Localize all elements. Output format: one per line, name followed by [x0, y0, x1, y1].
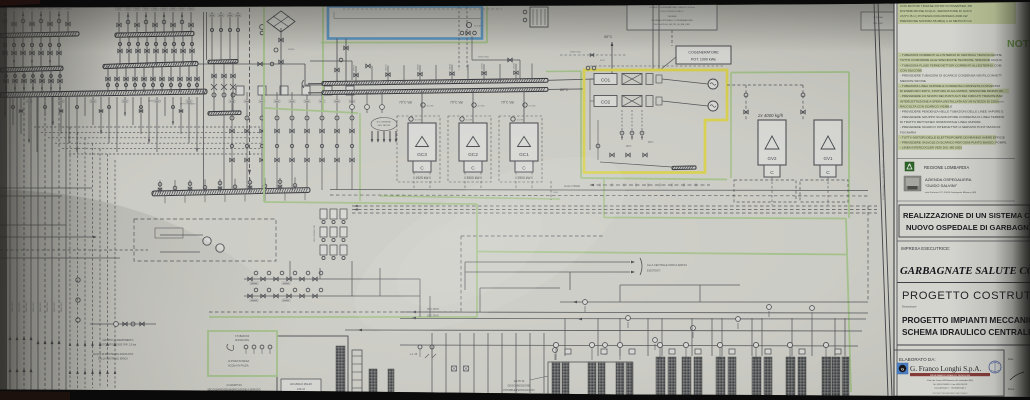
stamp	[989, 361, 1001, 373]
title block panel	[894, 1, 1030, 398]
valve train rows	[244, 278, 420, 280]
dashed verticals descending to bottom	[69, 127, 71, 388]
drops below collettore M5	[4, 97, 6, 116]
tank outline around disconnettori left group	[548, 362, 632, 396]
svg-text:MEDIATE SIFONE: MEDIATE SIFONE	[900, 79, 926, 83]
green boundary top-left loop	[263, 3, 265, 202]
boiler group GC2 dashed enclosure	[448, 116, 491, 182]
svg-text:RACCOLTA CON SCARICO VISIBILE: RACCOLTA CON SCARICO VISIBILE	[900, 105, 952, 109]
filter/separator diamond	[267, 11, 295, 32]
collettore upper bar	[322, 78, 548, 85]
CO1 unit	[594, 74, 617, 85]
steam generator GV1	[814, 120, 842, 165]
manifold M4	[103, 61, 198, 68]
boiler GC2	[459, 123, 487, 161]
risers above manifold M2	[118, 12, 120, 33]
collettore lower bar	[322, 87, 548, 94]
cogeneratore label box	[676, 46, 731, 64]
collettore left stub	[308, 83, 322, 85]
CO2 unit	[594, 96, 617, 107]
green riser right	[846, 218, 851, 392]
note box locale cogeneratore	[627, 3, 717, 30]
dashed panel box	[134, 219, 276, 261]
boiler GC1	[510, 123, 538, 161]
svg-text:ELABORATO DA:: ELABORATO DA:	[899, 357, 936, 362]
unit boxes row	[236, 86, 244, 95]
pumps on cogen feed lines	[351, 92, 353, 113]
manifold M3	[0, 66, 63, 72]
feed lines from top to cogen	[652, 2, 654, 70]
pump lines GC3	[421, 91, 423, 123]
valve row above M6	[159, 180, 161, 193]
step connectors	[619, 285, 621, 302]
top black border bar	[0, 0, 1030, 8]
green pozzi box	[208, 331, 277, 376]
boiler GC3	[408, 123, 436, 161]
dashed companion of green loop	[209, 311, 461, 313]
expansion vessels	[320, 209, 327, 219]
manifold M2	[115, 31, 194, 37]
extra bottom verticals	[431, 333, 433, 393]
green boundary around blue box	[323, 4, 487, 5]
drops M2 to M4	[119, 36, 121, 65]
coil exchanger right of blue box	[530, 7, 548, 27]
left pipe bundle	[9, 97, 11, 392]
yellow box lower valves	[621, 110, 623, 140]
svg-text:Descrizione: Descrizione	[902, 305, 917, 309]
M4 to collettore link	[198, 63, 305, 65]
yellow highlighted cogeneration box	[584, 70, 727, 173]
long control line bundle	[352, 205, 877, 207]
alla centrale idrica	[465, 261, 630, 263]
cogen wires	[662, 79, 708, 84]
svg-text:FOGNARIA: FOGNARIA	[900, 130, 917, 134]
95C pipe	[548, 79, 612, 81]
project title box	[899, 205, 1030, 237]
bottom-left horizontal runs	[0, 236, 96, 238]
feeders to bottom units	[564, 318, 566, 356]
risers above manifold M1	[4, 11, 6, 33]
mini manifold cogen	[672, 166, 696, 170]
substation risers	[211, 12, 213, 60]
drops M1 to M3	[4, 37, 6, 68]
unit tops	[555, 348, 557, 360]
svg-text:G: G	[901, 367, 904, 372]
drops blue box to collettore	[336, 39, 338, 82]
short drops below M6	[164, 195, 166, 203]
misc circles left column	[76, 278, 80, 282]
ladder column	[352, 350, 362, 396]
azienda ospedaliera logo	[904, 176, 921, 191]
vertical pair x203	[203, 12, 205, 190]
tank accumulo rialzo	[277, 336, 348, 396]
small note box top right	[861, 12, 896, 30]
left horizontal stubs near manifold M6 level	[0, 187, 92, 189]
dashed boundary x249	[249, 8, 251, 192]
notes top highlighted	[898, 1, 1016, 24]
generator circles	[708, 79, 718, 89]
lines under GC groups	[330, 190, 868, 191]
gruppo di riempimento	[90, 323, 156, 325]
disconnettori hatched columns	[552, 362, 560, 396]
green inner lines	[359, 113, 361, 201]
elaborato da block	[894, 350, 1004, 396]
mini manifold B	[208, 111, 241, 115]
boiler group GC3 dashed enclosure	[397, 116, 440, 182]
steam generator GV2	[758, 120, 786, 165]
DN labels row left of cogen	[560, 54, 627, 56]
drops M3/M4 to collettore M5	[5, 71, 7, 93]
nested dashed control lines	[34, 126, 262, 128]
links to GV	[727, 84, 803, 86]
regione lombardia logo	[897, 158, 1015, 160]
ai cogeneratori balloon and arrows	[371, 118, 397, 131]
green wrap cogeneration	[580, 71, 582, 178]
riser/valve field mid-left	[231, 92, 233, 190]
drawing frame border right	[874, 2, 888, 396]
manifold M1	[0, 32, 79, 38]
pump lines GC1	[523, 90, 525, 123]
mini manifold A	[208, 59, 238, 63]
big pumps pair	[203, 237, 211, 245]
dashed verticals through blue box	[458, 2, 460, 70]
blue highlighted box	[328, 7, 482, 39]
manifold M6 setto forato	[152, 188, 310, 196]
boiler group GC1 dashed enclosure	[499, 116, 542, 182]
pump lines GC2	[472, 91, 474, 124]
manifold M5 collettore	[0, 89, 207, 97]
risers above collettore	[355, 66, 357, 83]
bottom black border bar	[0, 390, 1030, 400]
svg-text:CON SILICONE: CON SILICONE	[900, 69, 922, 73]
green box steam generators	[731, 71, 849, 74]
svg-text:IMPRESA ESECUTRICE:: IMPRESA ESECUTRICE:	[901, 246, 950, 251]
distribution lines	[560, 301, 868, 303]
gauges	[768, 311, 770, 317]
dashed boxes below GV	[734, 180, 796, 202]
green loop mid	[476, 204, 478, 317]
